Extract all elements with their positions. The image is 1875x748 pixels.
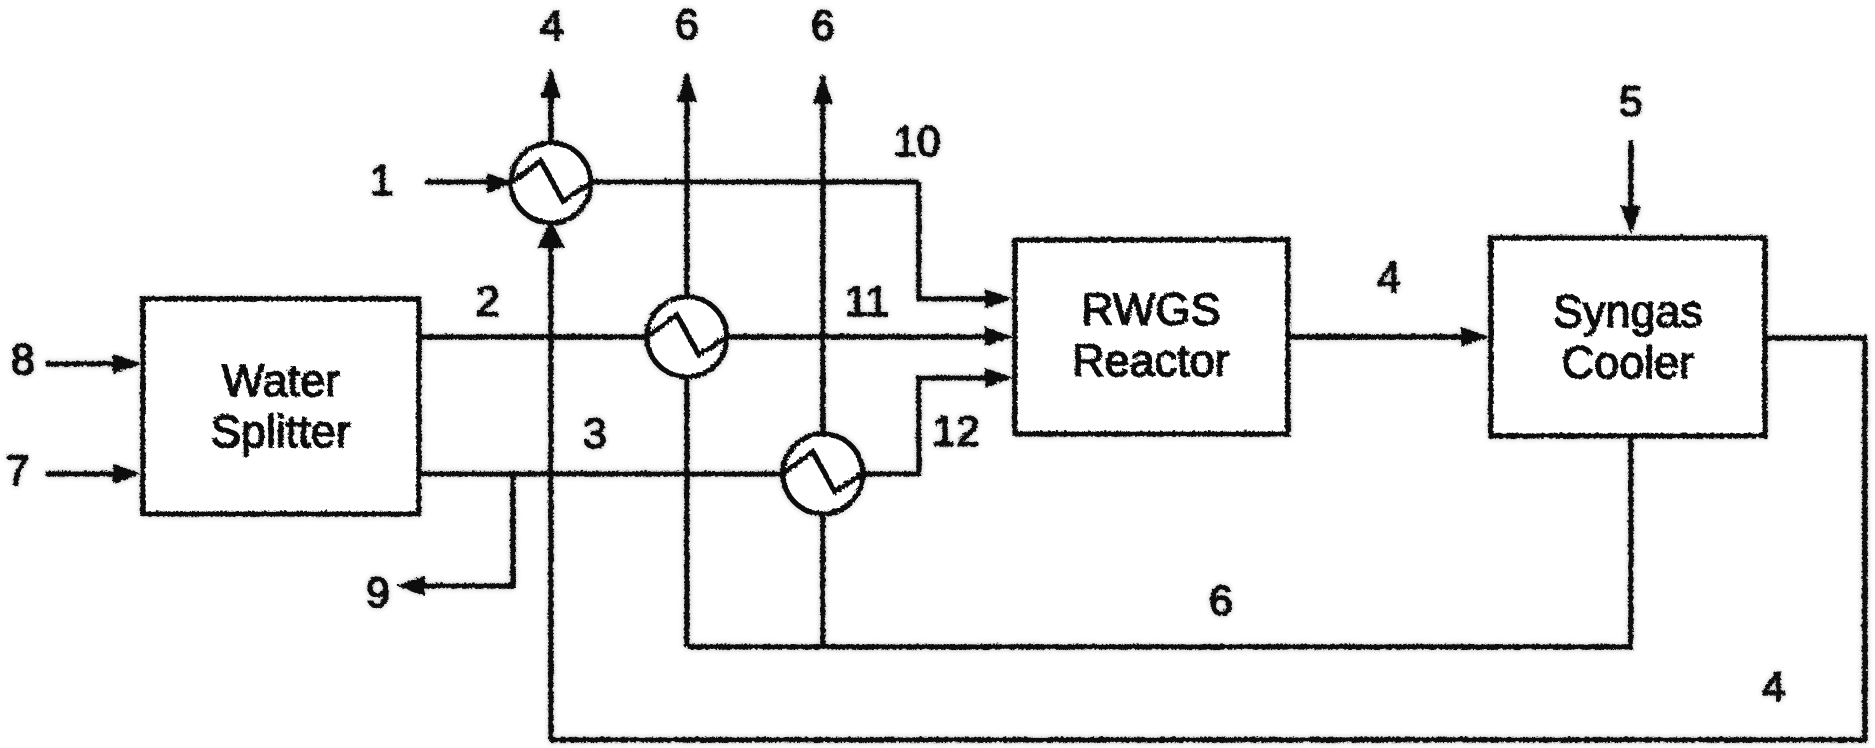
svg-text:8: 8: [10, 335, 34, 383]
svg-text:Splitter: Splitter: [210, 405, 350, 456]
svg-text:4: 4: [1761, 662, 1785, 710]
svg-text:9: 9: [365, 568, 389, 616]
svg-text:6: 6: [674, 0, 698, 48]
svg-text:11: 11: [844, 277, 889, 325]
svg-text:RWGS: RWGS: [1080, 283, 1219, 334]
svg-text:3: 3: [582, 409, 606, 457]
svg-text:6: 6: [810, 1, 834, 49]
svg-text:4: 4: [539, 1, 563, 49]
svg-text:Reactor: Reactor: [1071, 334, 1229, 385]
svg-text:7: 7: [5, 446, 29, 494]
svg-text:Syngas: Syngas: [1552, 285, 1702, 336]
svg-text:4: 4: [1376, 253, 1400, 301]
svg-text:12: 12: [931, 407, 979, 455]
svg-text:2: 2: [475, 277, 499, 325]
svg-text:Water: Water: [221, 354, 339, 405]
svg-text:10: 10: [892, 117, 940, 165]
svg-text:6: 6: [1208, 576, 1232, 624]
svg-text:1: 1: [369, 156, 393, 204]
svg-text:5: 5: [1618, 77, 1642, 125]
svg-text:Cooler: Cooler: [1561, 336, 1694, 387]
